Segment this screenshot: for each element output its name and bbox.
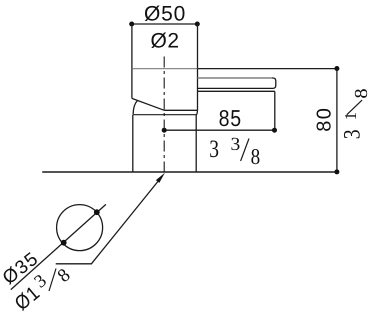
faucet body bottom horizontal	[164, 109, 197, 111]
leader arrow line	[56, 177, 162, 264]
dim dot upper-right on circle	[94, 209, 100, 215]
leader arrowhead	[156, 173, 165, 183]
base top-right arc	[196, 110, 197, 115]
svg-text:85: 85	[219, 105, 242, 131]
svg-text:8: 8	[351, 88, 370, 98]
svg-text:3: 3	[231, 134, 241, 155]
spout lip line	[198, 90, 275, 92]
extension line right Ø50	[197, 24, 199, 69]
label Ø1 3/8 rotated	[11, 265, 75, 314]
spout bar	[198, 78, 276, 88]
fraction slash Ø1 3/8	[49, 269, 56, 292]
dim dot lower-left on circle	[61, 240, 67, 246]
extension line left Ø50	[131, 24, 133, 69]
label 3 1/8	[340, 88, 370, 139]
svg-text:3: 3	[209, 136, 219, 163]
dimension line 85	[164, 129, 274, 131]
svg-text:8: 8	[251, 144, 261, 169]
spout bar top gray edge	[198, 77, 273, 79]
label 3 3/8	[209, 134, 260, 169]
base top-left arc	[133, 101, 137, 115]
fraction slash 1/8	[347, 100, 362, 115]
svg-text:Ø50: Ø50	[144, 2, 186, 25]
surface line	[42, 171, 338, 173]
faucet body right edge	[197, 69, 199, 111]
centerline	[163, 57, 165, 173]
svg-text:80: 80	[314, 107, 336, 132]
svg-text:8: 8	[54, 265, 75, 287]
faucet body top edge	[132, 68, 198, 70]
diagonal dimension line Ø35	[11, 204, 106, 289]
dim dot right 85	[272, 128, 277, 133]
dim dot top 80	[334, 66, 339, 71]
base left edge	[132, 115, 134, 172]
faucet body bottom slant	[132, 98, 164, 110]
svg-text:3: 3	[340, 129, 366, 139]
dim dot left 85	[162, 128, 167, 133]
base top edge	[133, 114, 196, 116]
dimension line Ø50	[132, 23, 198, 25]
dim dot left Ø50	[129, 22, 134, 27]
extension line 85 right vertical	[274, 91, 276, 130]
base right edge	[195, 115, 197, 172]
svg-text:1: 1	[341, 112, 360, 120]
dim dot bottom 80	[334, 169, 339, 174]
extension line 80 top	[198, 68, 339, 70]
dimension line 80	[336, 69, 338, 173]
detail circle Ø35	[57, 205, 103, 251]
dim dot right Ø50	[195, 22, 200, 27]
svg-text:Ø2: Ø2	[150, 29, 179, 52]
fraction slash 3/8	[241, 139, 249, 162]
faucet body left edge	[131, 69, 133, 99]
